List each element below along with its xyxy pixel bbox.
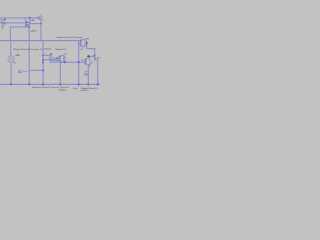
- IC U4 pin stub 2: [84, 61, 87, 63]
- svg-text:IN: IN: [14, 62, 17, 64]
- svg-text:Weight=0: Weight=0: [59, 88, 66, 91]
- svg-text:U1A: U1A: [30, 19, 34, 22]
- wire op-amp output: [31, 23, 41, 25]
- svg-text:SINE: SINE: [15, 55, 20, 57]
- IC U2 box: [60, 55, 64, 62]
- svg-text:D: D: [86, 60, 88, 62]
- voltage source V1 circle: [8, 56, 14, 62]
- capacitor C1 lower bar: [94, 59, 97, 61]
- svg-text:Weight=0V Ikw=0V Trise=4ns: Weight=0V Ikw=0V Trise=4ns: [57, 36, 83, 39]
- wire net IN+ top rail: [0, 17, 37, 19]
- capacitor C1 plate left: [93, 57, 95, 60]
- wire to switch lower: [43, 59, 57, 61]
- svg-text:1k: 1k: [1, 27, 3, 29]
- IC U2 pin stub 1: [59, 56, 61, 58]
- node junction ground divider: [42, 84, 44, 86]
- wire U2 output down: [64, 57, 66, 63]
- node junction divider upper: [42, 54, 44, 56]
- op-amp U1 plus mark: [27, 22, 28, 24]
- wire OUT stub into U4: [88, 57, 90, 59]
- svg-text:1.2E+07: 1.2E+07: [30, 31, 37, 33]
- svg-text:AV: AV: [50, 52, 53, 55]
- voltage source V1 sine mark: [10, 58, 13, 59]
- IC U3 box: [81, 39, 85, 46]
- wire diode cathode down: [40, 18, 41, 41]
- wire U2 ground drop: [59, 62, 61, 84]
- node junction ground V1: [10, 84, 12, 86]
- node junction ground A: [28, 84, 30, 86]
- wire switch bottom drop: [50, 60, 85, 62]
- IC U4 pin squares: [85, 59, 86, 64]
- svg-text:Tfall=4ns: Tfall=4ns: [44, 49, 52, 51]
- node junction ground probe: [87, 84, 89, 86]
- svg-text:Q: Q: [86, 45, 88, 47]
- node junction ground U3: [78, 84, 80, 86]
- IC U4 pin stub 3: [84, 63, 87, 65]
- svg-text:Ikw=0V Tr: Ikw=0V Tr: [80, 89, 89, 92]
- ground bus rail: [0, 83, 100, 85]
- switch S1 inner mark: [50, 55, 52, 60]
- wire vertical main divider: [42, 41, 44, 85]
- wire U4 left pins rail: [84, 59, 86, 64]
- op-amp U1: [27, 21, 31, 26]
- op-amp U1 minus mark: [27, 24, 28, 26]
- wire jog horizontal node A: [29, 69, 43, 71]
- wire vertical opamp input from top rail: [25, 18, 27, 27]
- svg-text:Weight=1V Ikw=0V Trise=4ns Tfa: Weight=1V Ikw=0V Trise=4ns Tfa: [14, 48, 44, 51]
- current probe circle: [84, 71, 88, 75]
- wire U2 pin bus vertical: [56, 58, 58, 60]
- wire S1 to U2 lower: [52, 60, 60, 62]
- diode D1 arrow: [37, 17, 39, 19]
- wire U4 down to probe: [87, 65, 89, 85]
- svg-text:Wt=0: Wt=0: [73, 87, 78, 90]
- node junction ground U2: [59, 84, 61, 86]
- svg-text:R2: R2: [81, 60, 83, 62]
- wire cap top feed: [94, 56, 96, 59]
- node junction U3 rail: [78, 61, 80, 63]
- IC U3 pin squares: [80, 40, 81, 45]
- IC U2 pin squares: [59, 56, 65, 61]
- wire S1 to U2 upper: [52, 57, 60, 59]
- svg-text:Weight=0V Ik: Weight=0V Ik: [55, 48, 66, 51]
- node junction ground cap: [97, 84, 99, 86]
- svg-text:1.8: 1.8: [64, 54, 68, 56]
- diode D1 top diagonal: [40, 15, 42, 17]
- voltage source V1 wire bottom: [10, 62, 12, 84]
- svg-text:D: D: [81, 41, 83, 43]
- node junction switch net: [57, 57, 59, 59]
- svg-text:I1R: I1R: [86, 38, 90, 40]
- current probe arrow: [85, 73, 87, 75]
- capacitor C1 plate right: [95, 57, 97, 60]
- diode D1 cathode bar: [39, 16, 41, 20]
- switch S1 box: [49, 55, 52, 60]
- wire cap bottom down: [96, 60, 98, 85]
- wire diagonal U4 to cap: [89, 61, 93, 65]
- svg-text:1uF: 1uF: [97, 57, 100, 59]
- IC U3 pin stub 1: [79, 40, 81, 42]
- node junction divider lower: [42, 59, 44, 61]
- wire oval stub: [23, 70, 29, 72]
- node junction U3 output: [86, 42, 88, 44]
- net label oval: [18, 70, 23, 73]
- IC U4 pin stub 1: [84, 59, 87, 61]
- wire U3 bottom pin: [79, 46, 83, 49]
- node junction U4 bottom: [88, 65, 90, 67]
- node dot OUT: [87, 55, 89, 57]
- node junction divider bottom: [42, 69, 44, 71]
- wire U3 output route: [85, 41, 95, 57]
- IC U4 box: [86, 59, 90, 65]
- node dot IN+: [4, 19, 5, 20]
- wire feedback horizontal: [10, 26, 29, 28]
- wire vertical left feedback to bus: [9, 27, 11, 41]
- IC U2 output bubble: [64, 56, 65, 57]
- wire from R1 to op-amp input: [6, 22, 26, 24]
- wire vertical opamp output to top rail: [29, 18, 31, 24]
- node junction on top rail: [29, 17, 31, 19]
- node junction output: [40, 23, 42, 25]
- middle bus rail: [0, 40, 79, 42]
- wire to switch upper: [43, 54, 49, 56]
- IC U3 pin stub 3: [79, 44, 81, 46]
- resistor R1: [0, 22, 6, 25]
- node junction divider mid: [42, 62, 44, 64]
- node junction feedback: [28, 26, 30, 28]
- svg-text:D: D: [60, 56, 62, 58]
- voltage source V1 wire top: [10, 41, 12, 56]
- wire left pins rail U3: [78, 40, 80, 84]
- node junction U2 output: [64, 61, 66, 63]
- IC U3 pin stub 2: [79, 42, 81, 44]
- IC U2 output pin stub: [64, 56, 65, 58]
- wire vertical node A to ground bus: [28, 27, 30, 85]
